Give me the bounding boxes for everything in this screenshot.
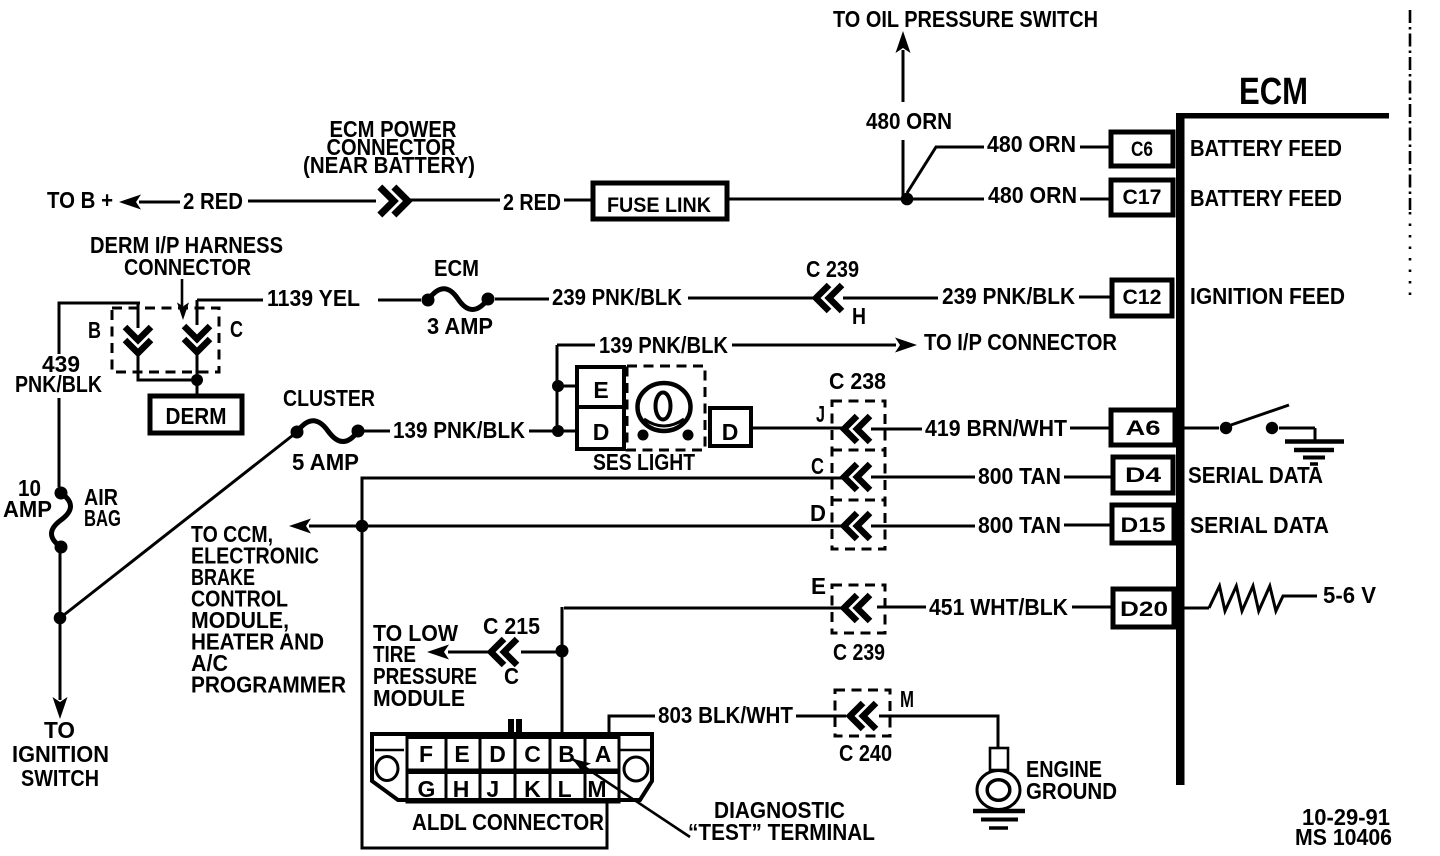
svg-text:A6: A6: [1126, 417, 1161, 440]
svg-text:803 BLK/WHT: 803 BLK/WHT: [658, 702, 793, 728]
svg-text:SWITCH: SWITCH: [21, 765, 99, 791]
wire 800 TAN (D15): [309, 525, 1112, 526]
svg-text:TO I/P CONNECTOR: TO I/P CONNECTOR: [924, 329, 1117, 355]
connector C239 chevron H: [806, 256, 866, 329]
wire arrow to low tire pressure module: [427, 645, 449, 660]
fuse link F1: [593, 183, 727, 219]
wire 239 PNK/BLK left: [688, 297, 814, 300]
ECM module outline: [1176, 113, 1389, 785]
svg-text:139 PNK/BLK: 139 PNK/BLK: [393, 417, 525, 443]
switch diagnostic test switch: [1181, 405, 1315, 440]
pin C17: [1111, 180, 1173, 215]
svg-text:CLUSTER: CLUSTER: [283, 385, 375, 411]
wire 439 PNK/BLK top segment: [59, 303, 140, 487]
svg-text:H: H: [453, 776, 470, 802]
svg-text:IGNITION FEED: IGNITION FEED: [1190, 283, 1345, 309]
svg-text:1139 YEL: 1139 YEL: [267, 285, 360, 311]
pin A6: [1111, 410, 1175, 445]
svg-text:480 ORN: 480 ORN: [987, 131, 1076, 157]
wire arrow to I/P connector: [895, 338, 917, 353]
svg-text:D: D: [489, 741, 506, 767]
terminal E chevron: [811, 573, 870, 621]
wire 800 TAN (D4): [362, 477, 1113, 526]
svg-text:SERIAL DATA: SERIAL DATA: [1190, 512, 1329, 538]
svg-text:B: B: [88, 317, 101, 343]
svg-text:239 PNK/BLK: 239 PNK/BLK: [942, 283, 1075, 309]
wire 239 PNK/BLK right: [843, 297, 1111, 298]
svg-text:ECM: ECM: [434, 255, 479, 281]
wire 419 BRN/WHT left: [753, 427, 842, 430]
svg-text:480 ORN: 480 ORN: [866, 108, 952, 134]
wire 2 RED arrow to B+: [119, 195, 141, 210]
fuse CLUSTER 5 AMP: [291, 421, 365, 442]
label ENGINE GROUND: [1026, 756, 1117, 804]
node junction at DERM: [191, 374, 203, 386]
resistor pull-up 5-6V: [1181, 586, 1317, 611]
value label 439 PNK/BLK: [15, 351, 102, 397]
terminal D output box: [710, 408, 751, 446]
svg-text:C: C: [524, 741, 541, 767]
label DIAGNOSTIC TEST TERMINAL: [688, 797, 875, 845]
ground symbol (test switch): [1285, 442, 1344, 465]
wire arrow to ignition switch: [53, 697, 68, 719]
svg-text:B: B: [558, 741, 575, 767]
node label TO IGNITION SWITCH: [12, 717, 109, 791]
terminal J chevron: [816, 401, 870, 442]
wire 451 WHT/BLK: [562, 607, 1111, 732]
wire 419 BRN/WHT right: [871, 428, 1111, 429]
svg-text:5-6 V: 5-6 V: [1323, 582, 1377, 608]
label DERM I/P HARNESS CONNECTOR: [90, 232, 283, 280]
svg-text:PNK/BLK: PNK/BLK: [15, 371, 102, 397]
svg-text:F: F: [419, 741, 433, 767]
node junction air bag wire: [54, 612, 67, 625]
wire 139 PNK/BLK to I/P connector: [557, 344, 896, 347]
svg-text:SES LIGHT: SES LIGHT: [593, 449, 695, 475]
wire 2 RED right segment: [409, 199, 591, 202]
svg-text:GROUND: GROUND: [1026, 778, 1117, 804]
svg-text:J: J: [486, 776, 499, 802]
svg-text:SERIAL DATA: SERIAL DATA: [1188, 462, 1323, 488]
svg-text:(NEAR BATTERY): (NEAR BATTERY): [303, 152, 475, 178]
svg-text:TO B +: TO B +: [47, 187, 113, 213]
ECM boundary dash-dot line: [1409, 10, 1412, 210]
connector C240 dashed box: [835, 690, 892, 766]
node junction serial data: [356, 520, 369, 533]
wire 139 PNK/BLK from cluster: [364, 430, 575, 433]
fuse AIR BAG 10 AMP: [52, 487, 71, 554]
svg-text:D20: D20: [1120, 598, 1168, 621]
wire diagonal to cluster fuse: [60, 432, 297, 618]
svg-text:800 TAN: 800 TAN: [978, 463, 1061, 489]
terminal M chevron: [850, 686, 914, 729]
svg-text:H: H: [852, 303, 866, 329]
svg-text:C 240: C 240: [839, 740, 892, 766]
svg-text:TO OIL PRESSURE SWITCH: TO OIL PRESSURE SWITCH: [833, 6, 1098, 32]
wire 480 ORN riser to oil pressure switch: [896, 31, 911, 196]
svg-text:C: C: [811, 453, 824, 479]
svg-text:239 PNK/BLK: 239 PNK/BLK: [552, 284, 682, 310]
svg-text:C 239: C 239: [806, 256, 859, 282]
svg-text:D4: D4: [1125, 464, 1161, 487]
svg-text:BAG: BAG: [84, 505, 121, 531]
wire 803 BLK/WHT to ALDL pin A: [609, 716, 846, 734]
svg-text:D15: D15: [1121, 514, 1166, 537]
svg-text:E: E: [454, 741, 469, 767]
pin C6: [1111, 132, 1173, 166]
wire 2 RED left segment: [139, 201, 376, 202]
svg-text:A: A: [595, 741, 612, 767]
svg-text:IGNITION: IGNITION: [12, 741, 109, 767]
label TO CCM ELECTRONIC BRAKE CONTROL MODULE HEATER AND A/C PROGRAMMER: [191, 521, 346, 698]
svg-text:ALDL CONNECTOR: ALDL CONNECTOR: [412, 809, 604, 835]
terminal B chevron: [125, 327, 151, 353]
svg-text:2 RED: 2 RED: [503, 189, 561, 215]
svg-text:TO: TO: [44, 717, 75, 743]
svg-text:G: G: [418, 776, 436, 802]
svg-text:D: D: [593, 419, 610, 445]
lamp SES dashed box: [627, 366, 705, 450]
svg-text:E: E: [811, 573, 826, 599]
svg-text:PROGRAMMER: PROGRAMMER: [191, 672, 346, 698]
svg-text:AMP: AMP: [3, 496, 52, 522]
wire B branch: [138, 303, 191, 380]
connector ECM power connector chevron: [380, 187, 408, 215]
connector C238 dashed box: [829, 368, 886, 549]
ALDL pin row F E D C B A: [407, 738, 619, 771]
svg-text:C6: C6: [1131, 138, 1153, 161]
wire 480 ORN diagonal branch to C6: [907, 147, 1109, 193]
svg-text:L: L: [558, 776, 572, 802]
node label TO LOW TIRE PRESSURE MODULE: [373, 620, 477, 711]
svg-text:C12: C12: [1123, 286, 1162, 309]
svg-text:MODULE: MODULE: [373, 685, 465, 711]
node junction SES E: [552, 380, 564, 392]
svg-text:C: C: [230, 316, 243, 342]
svg-text:C 239: C 239: [833, 639, 885, 665]
wire C215 branch to low tire pressure module: [448, 651, 556, 654]
svg-text:2 RED: 2 RED: [183, 188, 243, 214]
svg-text:M: M: [900, 686, 914, 712]
svg-text:C 215: C 215: [483, 613, 540, 639]
ground symbol engine ground: [973, 748, 1025, 828]
svg-text:K: K: [524, 776, 541, 802]
svg-text:E: E: [593, 377, 608, 403]
pin C12: [1112, 280, 1172, 316]
terminal D chevron: [810, 500, 870, 539]
wire 439 PNK/BLK lower segment: [59, 553, 62, 700]
fuse ECM 3 AMP: [422, 289, 495, 310]
connector C239 dashed box (E): [832, 585, 885, 665]
svg-text:C: C: [504, 663, 519, 689]
ALDL pin row G H J K L M: [407, 773, 619, 803]
wire pointer arrow from DERM label: [177, 279, 189, 320]
svg-text:BATTERY FEED: BATTERY FEED: [1190, 185, 1342, 211]
wire leader diagnostic test terminal: [568, 753, 690, 837]
pin D15: [1112, 505, 1174, 543]
svg-text:5 AMP: 5 AMP: [292, 449, 359, 475]
node junction C215 branch: [556, 645, 569, 658]
terminal C chevron: [184, 326, 210, 352]
svg-text:C 238: C 238: [829, 368, 886, 394]
svg-text:3 AMP: 3 AMP: [427, 313, 493, 339]
node junction SES D: [552, 425, 564, 437]
svg-text:J: J: [816, 401, 825, 427]
svg-text:ECM: ECM: [1239, 71, 1308, 113]
svg-text:D: D: [810, 500, 826, 526]
label AIR BAG: [84, 484, 121, 531]
svg-text:MS 10406: MS 10406: [1295, 824, 1392, 850]
pin D20: [1113, 589, 1174, 627]
pin D4: [1113, 457, 1173, 493]
connector SES light E/D terminals: [577, 367, 624, 449]
svg-text:D: D: [722, 419, 739, 445]
node junction 480 ORN: [901, 193, 914, 206]
svg-text:BATTERY FEED: BATTERY FEED: [1190, 135, 1342, 161]
label ECM POWER CONNECTOR (NEAR BATTERY): [303, 116, 475, 178]
connector C215 chevron C: [483, 613, 540, 689]
value label 10 AMP: [3, 475, 52, 522]
wire 1139 YEL: [197, 299, 549, 300]
connector ALDL shell: [370, 719, 654, 800]
wire 480 ORN from fuse link to C17: [729, 198, 1109, 201]
wire arrow to CCM: [289, 519, 311, 534]
svg-text:“TEST” TERMINAL: “TEST” TERMINAL: [688, 819, 875, 845]
svg-text:CONNECTOR: CONNECTOR: [124, 254, 251, 280]
wire C branch: [196, 300, 199, 394]
wire 803 BLK/WHT to engine ground: [879, 716, 998, 748]
svg-text:451 WHT/BLK: 451 WHT/BLK: [929, 594, 1068, 620]
svg-text:FUSE LINK: FUSE LINK: [607, 194, 711, 217]
wire serial data to ALDL pin M: [362, 526, 607, 848]
lamp SES bulb: [638, 383, 694, 441]
connector DERM I/P harness dashed box: [112, 308, 219, 372]
terminal C chevron: [811, 453, 870, 490]
svg-text:419 BRN/WHT: 419 BRN/WHT: [925, 415, 1067, 441]
svg-text:DERM: DERM: [166, 403, 227, 429]
wire SES light feed riser: [557, 345, 575, 431]
svg-text:139 PNK/BLK: 139 PNK/BLK: [599, 332, 728, 358]
svg-text:800 TAN: 800 TAN: [978, 512, 1061, 538]
svg-text:C17: C17: [1123, 186, 1162, 209]
svg-text:480 ORN: 480 ORN: [988, 182, 1077, 208]
module DERM: [150, 396, 242, 433]
